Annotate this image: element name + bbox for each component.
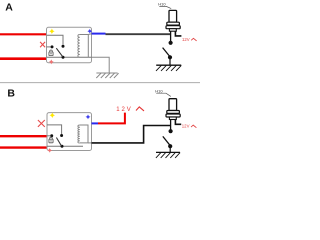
wire blue coil out A	[92, 33, 106, 35]
wire red battery feed A bottom	[0, 57, 47, 60]
svg-text:H10: H10	[158, 2, 166, 7]
contact dot right B	[60, 134, 63, 137]
svg-text:12V: 12V	[182, 124, 190, 129]
padlock icon A	[49, 50, 53, 56]
contact dot common A	[62, 56, 65, 59]
wire red battery feed B bottom	[0, 146, 47, 148]
svg-text:12V: 12V	[182, 37, 190, 42]
leader H10 B	[156, 93, 171, 96]
terminal marker red A	[49, 59, 54, 64]
terminal marker yellow B	[50, 113, 56, 119]
contact blade A	[56, 48, 63, 57]
lamp pin left A	[170, 31, 172, 41]
terminal marker blue B	[86, 114, 91, 119]
wire red battery feed A top	[0, 33, 47, 35]
relay common line B	[47, 145, 83, 147]
lamp pin right A	[175, 31, 181, 36]
terminal marker yellow A	[49, 29, 55, 35]
ground symbol A left	[96, 73, 118, 78]
wire to ground B right	[169, 146, 171, 152]
ground symbol A right	[156, 65, 181, 71]
relay internal wire top B	[47, 125, 62, 134]
wire to ground A right	[169, 57, 171, 65]
ground symbol B right	[156, 152, 180, 158]
padlock icon B	[49, 137, 53, 143]
svg-text:H10: H10	[155, 88, 163, 93]
wire red to 12V B	[98, 113, 125, 124]
wire dark to lamp A	[106, 33, 171, 35]
terminal marker blue A	[87, 29, 92, 34]
contact dot left A	[51, 45, 54, 48]
relay coil A	[78, 35, 80, 58]
contact dot left B	[50, 134, 53, 137]
contact dot common B	[61, 145, 64, 148]
switch blade B	[163, 136, 170, 145]
lamp pin left B	[170, 120, 172, 130]
relay internal wire top A	[47, 35, 64, 44]
cross mark X B	[38, 120, 45, 127]
svg-text:B: B	[7, 87, 15, 99]
contact blade B	[56, 138, 61, 147]
lamp H10 A	[166, 10, 180, 31]
relay internal stub left B	[47, 135, 50, 137]
leader H10 A	[159, 6, 171, 8]
contact dot right A	[62, 45, 65, 48]
section divider	[0, 82, 200, 84]
svg-text:12V: 12V	[116, 107, 132, 113]
relay coil B	[78, 125, 80, 143]
lamp H10 B	[166, 99, 180, 120]
wire blue coil out B	[92, 122, 99, 124]
junction dot B	[169, 129, 173, 133]
wire red battery feed B top	[0, 135, 47, 137]
relay internal stub left A	[47, 46, 51, 48]
lamp pin right B	[175, 120, 181, 125]
relay common line A	[47, 56, 92, 58]
switch blade A	[163, 48, 170, 57]
ground wire A left	[92, 57, 110, 73]
cross mark X A	[40, 42, 45, 47]
terminal marker red B	[47, 148, 52, 153]
relay box A	[47, 27, 92, 62]
wire black coil to switch B	[92, 126, 171, 143]
junction dot A	[169, 41, 173, 45]
switch dot lower B	[168, 144, 172, 148]
relay box B	[47, 113, 92, 151]
svg-text:A: A	[5, 2, 13, 14]
switch dot lower A	[168, 55, 172, 59]
